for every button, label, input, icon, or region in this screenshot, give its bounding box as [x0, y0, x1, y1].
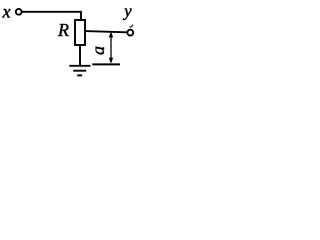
terminal y	[127, 30, 133, 36]
resistor R1 body	[75, 20, 85, 45]
svg-text:y: y	[122, 2, 132, 21]
terminal x	[16, 9, 22, 15]
wire resistor bottom to ground	[79, 45, 81, 65]
svg-text:R: R	[57, 20, 69, 40]
dimension reference line	[92, 63, 120, 65]
ground	[69, 66, 90, 76]
wire tap to terminal y	[85, 31, 127, 32]
y descender curl	[129, 25, 132, 28]
svg-text:a: a	[88, 46, 108, 55]
dimension arrow a (double-headed)	[109, 32, 113, 64]
wire x to resistor top	[22, 12, 81, 20]
svg-text:x: x	[2, 1, 11, 21]
